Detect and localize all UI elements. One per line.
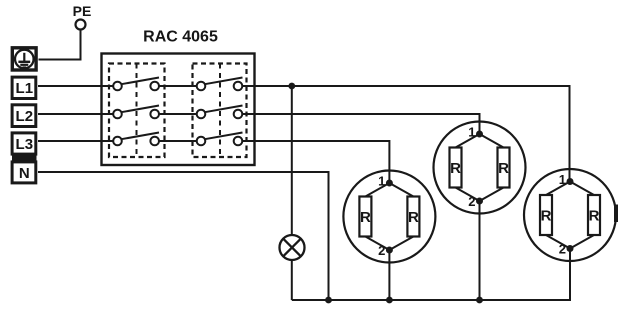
terminal N bbox=[12, 162, 36, 183]
terminal PE bbox=[76, 20, 86, 30]
wire N (to bottom bus) bbox=[38, 172, 329, 300]
heater E1 bbox=[343, 171, 435, 263]
wire heater E2 node 2 to bus bbox=[479, 201, 481, 300]
E3 resistor R right bbox=[588, 195, 600, 235]
svg-text:1: 1 bbox=[559, 172, 566, 187]
svg-text:1: 1 bbox=[378, 174, 385, 189]
svg-text:2: 2 bbox=[468, 194, 475, 209]
E3 hexagon wires bbox=[546, 182, 594, 249]
contact K2-L1 bbox=[197, 78, 243, 91]
contact K1-L1 bbox=[113, 78, 159, 91]
wire L2 (to heater E2 node 1) bbox=[38, 114, 480, 135]
lamp H1 bbox=[280, 235, 305, 260]
contact K2-L3 bbox=[197, 133, 243, 146]
heater E2 bbox=[434, 122, 526, 214]
E2 resistor R left bbox=[450, 148, 462, 188]
svg-text:R: R bbox=[360, 209, 371, 226]
E2 node 1 bbox=[476, 131, 483, 138]
wire PE to earth terminal bbox=[39, 30, 81, 60]
terminal L3 bbox=[12, 133, 36, 154]
svg-text:1: 1 bbox=[468, 125, 475, 140]
junction heater E1 drop on bus bbox=[386, 297, 393, 304]
svg-text:L2: L2 bbox=[16, 108, 34, 125]
svg-text:RAC 4065: RAC 4065 bbox=[143, 29, 218, 46]
svg-text:PE: PE bbox=[73, 3, 92, 19]
E3 node 2 bbox=[567, 245, 574, 252]
svg-text:2: 2 bbox=[378, 243, 385, 258]
junction N drop on bus bbox=[325, 297, 332, 304]
bottom neutral bus bbox=[292, 248, 570, 300]
svg-text:R: R bbox=[541, 208, 552, 225]
svg-text:L1: L1 bbox=[16, 80, 34, 97]
K1 mechanical linkage bbox=[136, 64, 138, 158]
contactor K1 dashed enclosure bbox=[109, 64, 165, 158]
wire lamp branch (L1 tap down to bus) bbox=[291, 86, 293, 300]
E1 resistor R right bbox=[407, 197, 419, 237]
contactor K2 dashed enclosure bbox=[193, 64, 247, 158]
svg-text:N: N bbox=[19, 165, 30, 182]
E3 resistor R left bbox=[540, 195, 552, 235]
wire L3 (to heater E1 node 1) bbox=[38, 141, 389, 184]
heater E3 bbox=[524, 169, 616, 261]
E2 hexagon wires bbox=[456, 134, 504, 201]
contact K1-L2 bbox=[113, 106, 159, 119]
svg-text:2: 2 bbox=[559, 242, 566, 257]
terminal block earth (PE) bbox=[12, 48, 36, 70]
contactor RAC 4065 outer box bbox=[102, 54, 255, 166]
contact K2-L2 bbox=[197, 106, 243, 119]
terminal L2 bbox=[12, 105, 36, 127]
E2 resistor R right bbox=[498, 148, 510, 188]
svg-text:R: R bbox=[450, 160, 461, 177]
E2 node 2 bbox=[476, 198, 483, 205]
stub mark right of heater E3 bbox=[614, 205, 618, 223]
E1 resistor R left bbox=[359, 197, 371, 237]
E1 node 1 bbox=[386, 180, 393, 187]
junction on L1 at lamp tap bbox=[288, 83, 295, 90]
junction heater E2 drop on bus bbox=[476, 297, 483, 304]
svg-text:L3: L3 bbox=[16, 136, 34, 153]
svg-text:R: R bbox=[408, 209, 419, 226]
K2 mechanical linkage bbox=[219, 64, 221, 158]
contact K1-L3 bbox=[113, 133, 159, 146]
svg-text:R: R bbox=[498, 160, 509, 177]
wire heater E1 node 2 to bus bbox=[388, 250, 390, 300]
svg-text:R: R bbox=[589, 208, 600, 225]
wire L1 (to heater E3 node 1) bbox=[38, 86, 570, 183]
black spacer between L3 and N bbox=[12, 155, 37, 160]
E1 node 2 bbox=[386, 247, 393, 254]
E1 hexagon wires bbox=[365, 183, 413, 250]
terminal L1 bbox=[12, 77, 36, 98]
E3 node 1 bbox=[567, 178, 574, 185]
